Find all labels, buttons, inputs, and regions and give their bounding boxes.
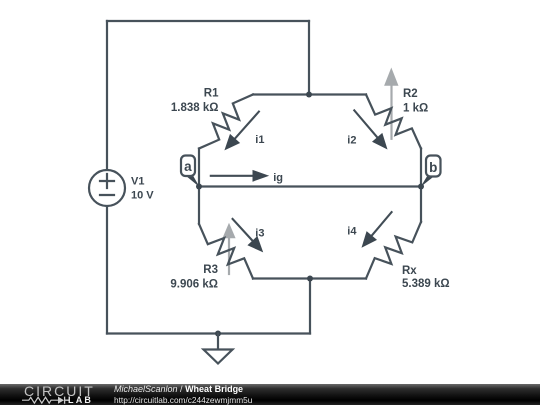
footer title line <box>114 384 243 394</box>
svg-text:b: b <box>429 160 437 175</box>
CircuitLab logo wordmark LAB <box>68 395 93 405</box>
wire V1 top lead / left vertical <box>106 21 108 169</box>
svg-text:ig: ig <box>273 172 283 184</box>
svg-text:R1: R1 <box>204 88 219 100</box>
gray wiper arrow on R3 <box>222 223 235 274</box>
footer url line <box>114 395 252 405</box>
svg-text:5.389 kΩ: 5.389 kΩ <box>402 278 450 290</box>
node b callout box <box>426 156 441 177</box>
voltage source V1 circle <box>89 170 125 206</box>
node a callout pointer <box>186 176 200 188</box>
resistor Rx zigzag <box>366 222 421 279</box>
wire middle galvanometer branch a-b <box>199 185 421 187</box>
wire vertical drop to bridge top node <box>308 21 310 95</box>
svg-text:Rx: Rx <box>402 265 417 277</box>
wire bottom node vertical drop <box>309 279 311 334</box>
svg-text:i1: i1 <box>255 134 264 146</box>
svg-text:i2: i2 <box>347 134 356 146</box>
wire node a down lead <box>198 187 200 225</box>
resistor R2 zigzag <box>366 95 421 149</box>
CircuitLab logo schematic icon (resistor + diode) <box>22 396 70 405</box>
resistor R3 zigzag <box>199 224 253 279</box>
junction dot ground tap <box>215 331 221 337</box>
junction dot bridge top node <box>306 92 312 98</box>
svg-text:R3: R3 <box>203 264 218 276</box>
ground symbol <box>204 334 233 364</box>
wire R1 bottom lead to node a <box>198 149 200 187</box>
current arrow i1 <box>224 112 259 151</box>
footer bar <box>0 384 540 405</box>
V1 plus sign <box>100 174 114 188</box>
V1 minus sign <box>100 194 114 196</box>
svg-text:V1: V1 <box>131 175 144 187</box>
svg-text:10 V: 10 V <box>131 189 154 201</box>
resistor R1 zigzag <box>199 95 253 149</box>
wire top horizontal <box>107 20 309 22</box>
node b callout pointer <box>421 176 436 188</box>
svg-text:9.906 kΩ: 9.906 kΩ <box>170 279 218 291</box>
current arrow i3 <box>233 219 264 253</box>
svg-text:1.838 kΩ: 1.838 kΩ <box>171 102 219 114</box>
wire R2 bottom lead to node b <box>420 149 422 187</box>
svg-text:i3: i3 <box>255 227 264 239</box>
current arrow i4 <box>362 212 392 248</box>
wire Rx top lead from node b <box>420 187 422 223</box>
wire V1 bottom lead <box>106 207 108 334</box>
current arrow i2 <box>354 110 387 149</box>
gray wiper arrow on R2 <box>384 68 398 139</box>
junction dot node a <box>196 184 202 190</box>
svg-text:i4: i4 <box>347 225 357 237</box>
junction dot bridge bottom node <box>307 276 313 282</box>
svg-text:R2: R2 <box>403 88 418 100</box>
CircuitLab logo wordmark CIRCUIT <box>24 383 95 399</box>
node a callout box <box>181 156 195 177</box>
wire bottom horizontal <box>107 332 310 334</box>
wire bridge bottom horizontal <box>253 277 366 279</box>
junction dot node b <box>418 184 424 190</box>
svg-text:a: a <box>184 159 192 174</box>
svg-text:1 kΩ: 1 kΩ <box>403 103 428 115</box>
current arrow ig <box>211 170 269 182</box>
wire bridge top horizontal <box>253 93 366 95</box>
